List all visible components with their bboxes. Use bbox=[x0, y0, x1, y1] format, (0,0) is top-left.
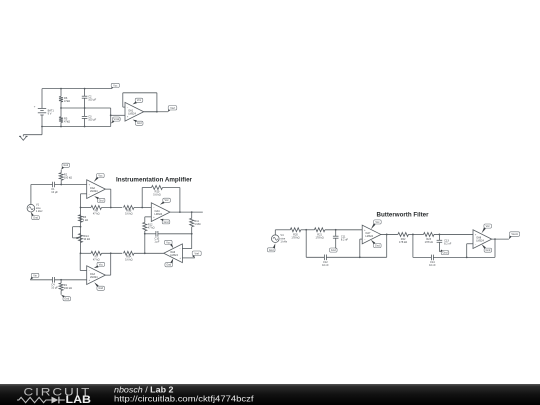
wire OA8 output bbox=[492, 238, 509, 240]
resistor R6 bbox=[60, 89, 62, 97]
wire stage1 rail bbox=[306, 256, 324, 258]
svg-text:LM324: LM324 bbox=[90, 190, 98, 193]
op-amp OA1 LM324 bbox=[125, 102, 144, 121]
svg-text:Vcc: Vcc bbox=[486, 225, 491, 228]
net flag Vcc (OA1 power) bbox=[135, 98, 143, 102]
resistor R23 bbox=[424, 232, 435, 236]
svg-text:Vref: Vref bbox=[194, 252, 199, 255]
svg-text:47kΩ: 47kΩ bbox=[64, 119, 70, 123]
source V4 bbox=[272, 235, 280, 243]
feedback wire OA1 bbox=[144, 111, 157, 113]
resistor R11 bbox=[191, 212, 193, 218]
svg-text:10 μF: 10 μF bbox=[51, 190, 58, 194]
wire mid to opamp bbox=[110, 108, 112, 127]
svg-text:47 kΩ: 47 kΩ bbox=[93, 212, 100, 216]
net flag Vcc (OA3) bbox=[97, 262, 105, 266]
net flag Vcc (OA2) bbox=[97, 174, 105, 178]
net flag Gnd (R2) bbox=[62, 163, 70, 167]
capacitor C10 bbox=[155, 231, 157, 237]
svg-text:5.6 kΩ: 5.6 kΩ bbox=[125, 212, 133, 216]
feedback loop OA4 bbox=[141, 188, 143, 208]
potentiometer RG4 bbox=[80, 226, 82, 228]
net flag Vcc (top rail) bbox=[111, 83, 119, 87]
net flag Gnd (OA3) bbox=[97, 286, 105, 290]
capacitor C12 bbox=[323, 255, 325, 261]
wire OA2 minus to gain column bbox=[81, 193, 87, 195]
wire mid node down bbox=[305, 230, 307, 257]
svg-text:Vcc: Vcc bbox=[375, 221, 380, 224]
svg-text:Vout1: Vout1 bbox=[511, 233, 518, 236]
svg-text:10 kΩ: 10 kΩ bbox=[83, 237, 90, 241]
capacitor C4 bbox=[52, 277, 54, 283]
svg-text:LM324: LM324 bbox=[476, 240, 484, 243]
svg-text:Gnd: Gnd bbox=[331, 249, 336, 252]
wire OA6 plus bbox=[182, 257, 194, 259]
resistor R2 bbox=[60, 184, 62, 186]
resistor R3 bbox=[79, 215, 83, 222]
svg-text:Vmid: Vmid bbox=[114, 118, 120, 121]
svg-text:Gnd: Gnd bbox=[33, 217, 38, 220]
wire OA4 plus input bbox=[145, 216, 152, 218]
wire bottom input bbox=[30, 279, 52, 281]
wire R8 feedback line bbox=[81, 207, 92, 209]
wire OA6 minus bbox=[182, 248, 191, 250]
footer bar bbox=[0, 384, 540, 405]
bottom rail wire bbox=[42, 126, 111, 128]
net flag Vcc (OA4) bbox=[163, 198, 171, 202]
net flag Gnd (C11) bbox=[330, 248, 338, 252]
resistor R12 bbox=[143, 222, 147, 231]
svg-text:47 kΩ: 47 kΩ bbox=[148, 226, 155, 230]
wire stage2 mid down bbox=[412, 234, 414, 257]
svg-text:47 kΩ: 47 kΩ bbox=[93, 257, 100, 261]
capacitor C11 bbox=[335, 230, 337, 236]
resistor R10 bbox=[152, 186, 163, 190]
svg-text:178 kΩ: 178 kΩ bbox=[291, 235, 299, 239]
net flag Gnd (R1) bbox=[63, 297, 71, 301]
wire OA2 output bbox=[105, 188, 110, 190]
net flag Gnd (OA1 power) bbox=[135, 121, 143, 125]
battery BAT1 bbox=[41, 89, 43, 109]
svg-text:LM324: LM324 bbox=[170, 254, 178, 257]
svg-text:100 μF: 100 μF bbox=[88, 97, 96, 101]
svg-text:http://circuitlab.com/cktfj477: http://circuitlab.com/cktfj4774bczf bbox=[114, 394, 254, 404]
svg-text:Gnd: Gnd bbox=[98, 287, 103, 290]
net flag Vcc (OA6) bbox=[165, 240, 173, 244]
svg-text:178 kΩ: 178 kΩ bbox=[316, 235, 324, 239]
wire OA4 minus input bbox=[141, 207, 143, 209]
resistor R20 bbox=[290, 228, 301, 232]
wire C10 line bbox=[145, 233, 156, 235]
svg-text:Vcc: Vcc bbox=[98, 175, 103, 178]
net flag Vmid bbox=[113, 117, 121, 121]
wire top input bbox=[31, 184, 53, 186]
op-amp OA7 LM324 bbox=[362, 225, 381, 244]
capacitor C2 bbox=[84, 89, 86, 97]
wire OA3 output bbox=[105, 274, 110, 276]
svg-text:1 μF: 1 μF bbox=[154, 239, 160, 243]
net flag Gnd (OA8) bbox=[484, 248, 492, 252]
svg-text:5.6 kΩ: 5.6 kΩ bbox=[153, 193, 161, 197]
net flag Vout1 bbox=[510, 232, 520, 237]
svg-text:100 kΩ: 100 kΩ bbox=[64, 286, 72, 290]
source V1 bbox=[27, 204, 35, 212]
svg-text:Gnd: Gnd bbox=[99, 199, 104, 202]
svg-text:8.2 nF: 8.2 nF bbox=[341, 237, 349, 241]
wire stage2 rail bbox=[413, 256, 432, 258]
capacitor C1 bbox=[52, 182, 54, 188]
svg-text:Gnd: Gnd bbox=[63, 164, 68, 167]
svg-text:10 nF: 10 nF bbox=[322, 263, 329, 267]
resistor R5 bbox=[60, 108, 62, 117]
svg-text:10 nF: 10 nF bbox=[429, 263, 436, 267]
svg-text:Gnd: Gnd bbox=[443, 252, 448, 255]
logo diode bbox=[52, 397, 59, 404]
resistor R9A bbox=[124, 251, 135, 255]
svg-text:Butterworth Filter: Butterworth Filter bbox=[377, 212, 430, 218]
wire OA3 minus bbox=[80, 270, 87, 272]
net flag Vref (OA6 plus) bbox=[192, 251, 201, 256]
capacitor C3 bbox=[84, 108, 86, 116]
svg-text:9 V: 9 V bbox=[48, 111, 52, 115]
wire OA7 minus bbox=[360, 238, 362, 240]
wire OA7 output bbox=[381, 233, 398, 235]
svg-text:178 kΩ: 178 kΩ bbox=[399, 240, 407, 244]
svg-text:10 μF: 10 μF bbox=[51, 285, 58, 289]
top rail wire (Vcc) bbox=[42, 88, 112, 90]
net flag Vref (output) bbox=[168, 106, 177, 110]
svg-text:Vin: Vin bbox=[33, 274, 37, 277]
net flag Gnd (OA6) bbox=[165, 263, 173, 267]
svg-text:Gnd: Gnd bbox=[164, 221, 169, 224]
capacitor C13 bbox=[438, 234, 440, 240]
wire OA8 minus bbox=[467, 243, 473, 245]
resistor R1 bbox=[60, 279, 62, 281]
svg-text:100 kΩ: 100 kΩ bbox=[64, 176, 72, 180]
net flag Gnd (C13) bbox=[441, 251, 449, 255]
svg-text:1 kHz: 1 kHz bbox=[36, 209, 43, 213]
wire OA6 output bbox=[163, 252, 165, 254]
net flag Gnd (OA2) bbox=[97, 198, 105, 202]
net flag Vcc (OA8) bbox=[484, 224, 492, 228]
net flag Gnd (V1) bbox=[32, 216, 40, 220]
op-amp OA4 LM324 bbox=[151, 203, 170, 222]
op-amp OA8 LM324 bbox=[473, 230, 492, 249]
node: divider mid wire bbox=[61, 107, 111, 109]
net flag Vin- (bottom input) bbox=[31, 273, 39, 277]
svg-text:Gnd: Gnd bbox=[375, 245, 380, 248]
svg-text:LM324: LM324 bbox=[90, 276, 98, 279]
op-amp OA3 LM324 bbox=[87, 266, 106, 285]
svg-text:LM324: LM324 bbox=[155, 213, 163, 216]
svg-text:100 μF: 100 μF bbox=[88, 118, 96, 122]
svg-text:Gnd: Gnd bbox=[486, 249, 491, 252]
logo resistor squiggle bbox=[17, 397, 51, 402]
net flag Gnd (OA7) bbox=[374, 244, 382, 248]
resistor R22 bbox=[398, 232, 409, 236]
svg-text:1 kHz: 1 kHz bbox=[280, 240, 287, 244]
resistor R8 bbox=[91, 206, 102, 210]
svg-text:LM324: LM324 bbox=[365, 235, 373, 238]
svg-text:LAB: LAB bbox=[66, 394, 92, 405]
op-amp OA2 LM324 bbox=[87, 180, 106, 199]
svg-text:178 kΩ: 178 kΩ bbox=[425, 240, 433, 244]
wire stage1 rail up bbox=[386, 234, 388, 257]
net flag Gnd (V4) bbox=[267, 248, 275, 252]
svg-text:1 kΩ: 1 kΩ bbox=[83, 218, 88, 222]
wire R7 feedback line bbox=[81, 252, 92, 254]
svg-text:Gnd: Gnd bbox=[269, 249, 274, 252]
resistor R21 bbox=[314, 228, 325, 232]
ground bbox=[41, 127, 43, 135]
resistor R9B bbox=[124, 206, 135, 210]
capacitor C14 bbox=[430, 255, 432, 261]
svg-text:Instrumentation Amplifier: Instrumentation Amplifier bbox=[116, 177, 193, 183]
svg-text:47kΩ: 47kΩ bbox=[64, 99, 70, 103]
resistor R7 bbox=[91, 251, 102, 255]
svg-text:LM324: LM324 bbox=[128, 112, 136, 115]
wire OA4 output bbox=[170, 211, 203, 213]
svg-text:Gnd: Gnd bbox=[166, 264, 171, 267]
svg-text:8.2 nF: 8.2 nF bbox=[444, 242, 452, 246]
wire stage1 top bbox=[275, 229, 290, 231]
svg-text:Vref: Vref bbox=[170, 107, 175, 110]
svg-text:Gnd: Gnd bbox=[137, 122, 142, 125]
svg-text:Gnd: Gnd bbox=[64, 298, 69, 301]
op-amp OA6 LM324 (mirrored) bbox=[164, 244, 183, 263]
net flag Vcc (OA7) bbox=[374, 220, 382, 224]
output wire OA1 bbox=[144, 111, 168, 113]
svg-text:1 MΩ: 1 MΩ bbox=[194, 222, 200, 226]
svg-text:5.6 kΩ: 5.6 kΩ bbox=[125, 257, 133, 261]
wire stage2 rail up bbox=[494, 239, 496, 257]
net flag Gnd (OA4) bbox=[162, 220, 170, 224]
